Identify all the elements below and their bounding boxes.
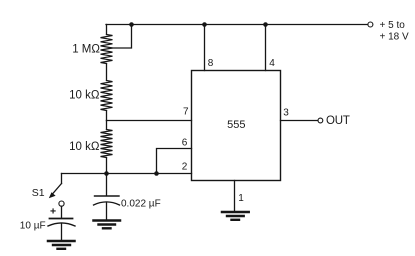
resistor R3 10 kOhm [101,130,113,158]
wire: pin 4 vertical to rail [265,25,267,71]
svg-text:OUT: OUT [326,115,350,127]
svg-text:0.022 µF: 0.022 µF [121,199,161,210]
capacitor C1 0.022uF top plate [95,195,120,197]
wire: C2 to ground [61,224,63,240]
capacitor C1 0.022uF bottom curved plate [94,202,120,205]
wire: R2 bottom to node at pin7 line [106,111,108,121]
junction dot: pin2 line / C1 branch [104,171,109,176]
switch S1 contact circle [59,201,64,206]
ground under pin 1 [222,211,249,214]
junction dot: rail / pin 8 [202,22,207,27]
junction dot: rail / tap [129,22,134,27]
wire: pin 8 vertical to rail [204,25,206,71]
svg-text:8: 8 [208,58,214,69]
svg-text:10 kΩ: 10 kΩ [69,141,100,153]
svg-text:S1: S1 [32,187,45,199]
wire: +V top rail [106,24,368,26]
capacitor C2 10uF bottom curved plate [48,223,75,226]
wire: switch contact down to C2 plus plate [61,206,63,217]
svg-text:3: 3 [283,107,289,118]
svg-text:6: 6 [182,137,188,148]
svg-text:+: + [50,206,56,218]
svg-text:7: 7 [183,107,189,118]
wire: pin 1 vertical to ground [234,181,236,211]
capacitor C2 10uF top plate [50,218,73,220]
resistor R1 1 MOhm [101,35,113,64]
wire: R1 bottom to R2 top [106,64,108,81]
wire: C1 to ground [106,203,108,220]
svg-text:4: 4 [269,58,275,69]
svg-text:555: 555 [227,119,245,131]
ground under C1 [94,219,121,222]
svg-text:2: 2 [182,162,188,173]
wire: rail corner down to R1 top [106,25,108,35]
svg-text:1 MΩ: 1 MΩ [72,44,100,56]
switch S1: drop from pin2 line [61,174,63,184]
ground under C2 [48,240,75,243]
svg-text:1: 1 [238,193,244,204]
wire: pin 2 horizontal line [62,173,192,175]
wire: R3 bottom to pin2 line [106,158,108,174]
wire: pin 3 output [281,120,318,122]
svg-text:10 kΩ: 10 kΩ [69,89,100,101]
wire: tap L from rail to R1 right side [112,25,132,49]
wire: pin 6 L from pin2 line up to pin 6 [157,149,192,174]
resistor R2 10 kOhm [101,81,113,111]
junction dot: rail / pin 4 [263,22,268,27]
wire: node to R3 top [106,121,108,130]
svg-text:+ 18 V: + 18 V [380,32,410,43]
switch S1 lever with arrow [51,184,61,196]
terminal: OUT open circle [318,118,323,123]
wire: pin 7 horizontal [107,120,192,122]
IC U1 555 body [192,71,281,181]
wire: node at pin2 line down to C1 [106,174,108,196]
junction dot: pin2 line / pin6 L [154,171,159,176]
svg-text:+ 5 to: + 5 to [380,20,406,31]
terminal: +V open circle [368,22,373,27]
svg-text:10 µF: 10 µF [20,220,46,231]
